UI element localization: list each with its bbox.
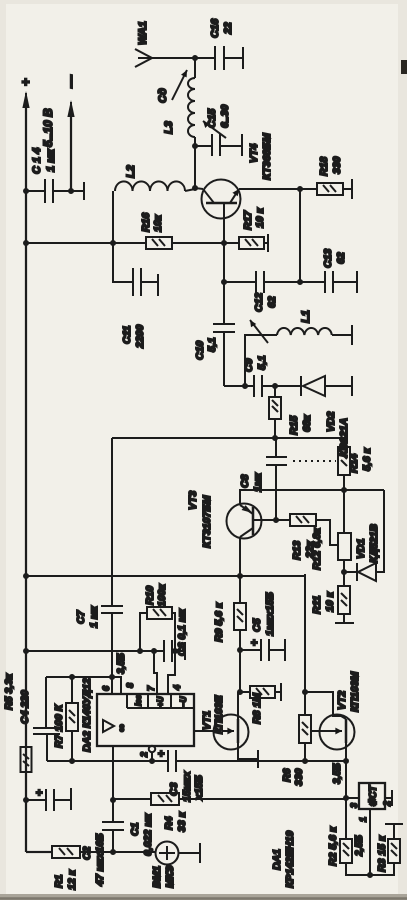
node C14 bottom: [68, 188, 74, 194]
wire: C2 branch from rail: [26, 799, 46, 801]
svg-text:VD2: VD2: [325, 411, 337, 432]
antenna WA1: [135, 49, 195, 67]
resistor R17: [224, 237, 264, 249]
svg-text:330: 330: [293, 768, 305, 786]
label C5 1мкх15В: [251, 592, 276, 636]
node R10 bottom: [172, 648, 178, 654]
label R5 3,3к: [3, 673, 15, 710]
svg-text:5..10 В: 5..10 В: [41, 108, 55, 147]
label pin 4: [172, 685, 182, 691]
wire: feedback column x223: [46, 677, 112, 761]
label R11 10к: [311, 591, 336, 614]
node C5: [237, 647, 243, 653]
svg-text:R11: R11: [311, 595, 323, 614]
svg-text:0,022 мк: 0,022 мк: [142, 813, 154, 856]
ground C15: [241, 134, 243, 156]
resistor R10: [140, 607, 175, 651]
wire: to L1: [245, 335, 277, 386]
arrow: + supply: [22, 91, 29, 108]
label R9 5,6к: [213, 602, 225, 642]
resistor R4: [113, 793, 346, 805]
label L2: [125, 165, 137, 178]
wire: +U distribution line x249: [26, 650, 185, 652]
label VT3 КТ3107БМ: [187, 491, 213, 548]
label DA2 К140УД12: [81, 678, 93, 752]
label VT2 КП103М: [336, 671, 361, 712]
wire: base line west with C10: [223, 243, 225, 324]
wire: VT3 collector to x410: [240, 490, 384, 505]
pin 7: [154, 651, 157, 694]
svg-text:R15: R15: [288, 416, 300, 435]
svg-text:62: 62: [266, 296, 278, 308]
resistor R2: [340, 798, 394, 875]
svg-text:R7 100 К: R7 100 К: [53, 703, 65, 748]
svg-text:R1: R1: [53, 874, 65, 888]
wire: minus rail: [70, 112, 72, 191]
transistor VT4: [202, 180, 241, 219]
svg-text:1 мк: 1 мк: [88, 605, 100, 628]
svg-text:Сд: Сд: [157, 88, 169, 103]
capacitor C10: [213, 324, 235, 386]
capacitor C6: [164, 640, 172, 662]
ground C13: [356, 271, 358, 293]
svg-text:DA1: DA1: [271, 849, 283, 870]
transistor VT1: [214, 692, 259, 759]
node varicap: [272, 383, 278, 389]
label 3,5В DA2: [116, 653, 127, 674]
svg-text:22: 22: [222, 22, 234, 35]
wire: source line to DA1: [345, 761, 347, 798]
label pin 6: [101, 685, 111, 691]
resistor R9: [234, 603, 246, 692]
svg-text:5,6 к: 5,6 к: [361, 447, 373, 471]
wire: VT4 base: [223, 203, 225, 243]
svg-text:1мкх15Б: 1мкх15Б: [264, 592, 276, 636]
label pin 8: [125, 683, 135, 688]
node C12 tap: [221, 279, 227, 285]
ground C2: [70, 788, 72, 810]
node C14 top: [23, 188, 29, 194]
wire: emitter link: [299, 189, 301, 282]
label R10 100к: [144, 583, 168, 607]
label R12 6,8к: [311, 527, 323, 570]
label C16 22: [209, 19, 234, 38]
svg-text:С2: С2: [81, 846, 93, 860]
label R3 15к: [376, 835, 388, 872]
label R13 22к: [291, 540, 316, 560]
pin 3 input line: [112, 746, 114, 761]
svg-text:6: 6: [101, 685, 111, 691]
label pin 1: [358, 817, 368, 822]
svg-text:КР142ЕН19: КР142ЕН19: [284, 831, 296, 888]
pin 2 DA1 ground: [385, 790, 392, 806]
label WA1: [137, 21, 149, 45]
ground C5: [284, 639, 286, 661]
diode VD1: [344, 490, 384, 581]
wire: inverting net x139: [47, 760, 346, 762]
ground R8: [280, 683, 282, 701]
node VD1 top: [341, 569, 347, 575]
label C4 220: [19, 690, 31, 724]
svg-text:6..30: 6..30: [219, 104, 231, 128]
wire: R16 to VT4 base node: [172, 242, 224, 244]
ground BM1: [199, 843, 201, 863]
wire: right feed line down: [112, 438, 344, 447]
ground R3: [385, 823, 403, 825]
capacitor C1: [102, 822, 124, 830]
label R14 5,6к: [348, 447, 373, 473]
opamp DA2 box: [97, 694, 194, 746]
ground L1: [351, 325, 353, 345]
capacitor C12: [224, 271, 300, 293]
label R15 68к: [288, 414, 313, 435]
ground VD2: [351, 376, 353, 396]
svg-text:С4 220: С4 220: [19, 690, 31, 724]
pin VT1 gate: [194, 730, 214, 732]
microphone BM1: [156, 842, 201, 865]
label pin 2 DA1: [382, 801, 392, 807]
svg-text:R3 15 к: R3 15 к: [376, 835, 388, 872]
ground C11: [157, 274, 159, 296]
node C15 tap: [192, 143, 198, 149]
wire: tank corner: [224, 385, 245, 387]
wire: R16 branch from rail: [26, 242, 146, 244]
svg-text:1 мк: 1 мк: [45, 148, 57, 172]
svg-text:12 к: 12 к: [66, 869, 78, 890]
label minus: [63, 74, 78, 89]
svg-text:КТ368БМ: КТ368БМ: [261, 133, 273, 180]
label cells Icc +U -U: [134, 694, 188, 707]
node rail R16: [23, 240, 29, 246]
resistor R3: [388, 824, 400, 863]
label L3: [163, 121, 175, 134]
pin 2 with circle: [149, 746, 155, 761]
capacitor C15 trimmer: [195, 121, 242, 156]
svg-text:R9 5,6 к: R9 5,6 к: [213, 602, 225, 642]
svg-text:+U: +U: [156, 696, 165, 707]
wire: VT4 emitter: [239, 188, 317, 190]
label 5...10 V: [41, 108, 55, 147]
svg-text:С1: С1: [129, 822, 141, 836]
svg-text:L2: L2: [125, 165, 137, 178]
svg-text:R12 6,8к: R12 6,8к: [311, 527, 323, 570]
wire: output line from DA2 pin6 area to modulator: [111, 438, 113, 677]
resistor R14: [338, 447, 350, 489]
node DA1 top: [343, 795, 349, 801]
label VD1 КД521В: [355, 523, 380, 563]
svg-text:С11: С11: [121, 325, 133, 344]
svg-text:R6: R6: [281, 768, 293, 782]
label C10 5,1: [194, 337, 218, 360]
capacitor C13: [300, 271, 357, 293]
wire: VT4 collector to tank node: [195, 188, 203, 189]
node pin6: [109, 674, 115, 680]
node R7 left: [69, 758, 75, 764]
resistor R18: [317, 183, 352, 195]
ground R11: [335, 622, 354, 624]
svg-text:2,5Б: 2,5Б: [354, 835, 365, 857]
svg-text:WA1: WA1: [137, 21, 149, 45]
capacitor C8: [266, 438, 287, 520]
label pin 3 DA1: [349, 803, 359, 808]
label R16 10к: [140, 213, 164, 232]
label 2,5В: [354, 835, 365, 857]
ground C16: [242, 47, 244, 69]
svg-text:3,5Б: 3,5Б: [116, 653, 127, 674]
svg-text:R14: R14: [348, 454, 360, 473]
varicap VD2: [275, 376, 352, 396]
svg-text:8: 8: [125, 683, 135, 688]
svg-text:VT4: VT4: [248, 144, 260, 163]
resistor R13: [276, 514, 338, 545]
svg-text:С3: С3: [168, 782, 180, 796]
svg-text:КП103М: КП103М: [349, 671, 361, 712]
resistor R8: [240, 686, 281, 698]
label C3 15мкх15Б: [168, 770, 205, 802]
svg-text:R13: R13: [291, 541, 303, 560]
svg-text:С5: С5: [251, 618, 263, 632]
node VT3 base: [273, 517, 279, 523]
svg-text:VT3: VT3: [187, 491, 199, 510]
svg-text:L1: L1: [300, 310, 312, 323]
svg-text:С15: С15: [206, 109, 218, 128]
svg-text:100к: 100к: [156, 583, 168, 607]
capacitor C4: [33, 677, 60, 761]
node VT2 feed: [302, 689, 308, 695]
node pin7: [151, 648, 157, 654]
svg-text:2200: 2200: [134, 324, 146, 349]
ground VT1 source: [257, 750, 259, 768]
label R8 1М: [251, 693, 263, 724]
label R6 330: [281, 768, 305, 786]
resistor R11: [338, 572, 350, 623]
node R15 feed: [272, 435, 278, 441]
svg-text:33 к: 33 к: [176, 811, 188, 832]
scan shadow bottom edge of page: [0, 894, 407, 900]
label Cd: [157, 88, 169, 103]
svg-text:−U: −U: [179, 696, 188, 707]
resistor R16: [146, 237, 172, 249]
node x249 rail: [23, 648, 29, 654]
svg-text:VD1: VD1: [355, 538, 367, 559]
svg-text:5,1: 5,1: [256, 355, 268, 370]
svg-text:3: 3: [349, 803, 359, 808]
wire: VT3 feed line x324: [26, 574, 305, 692]
svg-text:47 мкх16Б: 47 мкх16Б: [94, 833, 106, 887]
svg-text:DA2 К140УД12: DA2 К140УД12: [81, 678, 93, 752]
svg-text:R8 1М: R8 1М: [251, 693, 263, 724]
svg-text:330: 330: [331, 156, 343, 174]
svg-text:С 1 4: С 1 4: [31, 148, 43, 174]
wire: C11 branch: [113, 243, 133, 282]
svg-text:∞: ∞: [116, 724, 128, 732]
svg-text:10 к: 10 к: [254, 207, 266, 228]
svg-text:МКЭ: МКЭ: [164, 865, 176, 888]
transistor VT2: [305, 692, 355, 761]
transistor VT3: [227, 504, 277, 539]
node R10 top: [137, 648, 143, 654]
wire: +supply top rail: [26, 103, 52, 852]
ground R18: [351, 179, 353, 199]
wire: node to L3: [194, 137, 196, 188]
resistor R1: [52, 846, 156, 858]
svg-text:ВМ1: ВМ1: [151, 866, 163, 888]
wire: VT3 emitter to rail line: [239, 537, 241, 576]
svg-text:+: +: [18, 78, 33, 86]
dashed link C8 R14: [293, 460, 336, 462]
svg-text:VT1: VT1: [201, 711, 213, 730]
svg-text:С8: С8: [239, 474, 251, 488]
label VD2 КВ121А: [325, 411, 350, 457]
resistor R5 in rail: [21, 747, 32, 772]
svg-text:7: 7: [146, 685, 156, 691]
svg-text:R2 5,6 к: R2 5,6 к: [327, 826, 339, 866]
label C12 62: [253, 293, 278, 312]
capacitor C11: [133, 268, 158, 296]
arrow L3 tuning: [172, 70, 187, 100]
wire: R9 line: [239, 576, 241, 603]
arrow: - supply: [67, 100, 74, 117]
svg-text:R18: R18: [318, 157, 330, 176]
label C7 1мк: [75, 605, 100, 628]
label BM1 МКЭ: [151, 865, 176, 888]
arrow tank tuning: [250, 320, 268, 343]
node pin1: [367, 872, 373, 878]
label C11 2200: [121, 324, 146, 349]
svg-text:R5 3,3к: R5 3,3к: [3, 673, 15, 710]
svg-text:L3: L3: [163, 121, 175, 134]
node VT1 drain: [237, 689, 243, 695]
svg-text:С16: С16: [209, 19, 221, 38]
capacitor C7: [101, 606, 123, 613]
ground R17: [264, 234, 268, 252]
svg-text:5,1: 5,1: [206, 337, 218, 352]
node antenna: [192, 55, 198, 61]
pin 8: [112, 677, 121, 694]
ground at minus rail: [71, 182, 84, 200]
svg-text:КП103Е: КП103Е: [213, 694, 225, 734]
svg-text:С6 0,1 мк: С6 0,1 мк: [176, 608, 188, 656]
pin 6: [111, 677, 113, 694]
svg-text:3,5Б: 3,5Б: [332, 763, 343, 784]
capacitor C14: [26, 179, 71, 203]
inductor L1: [277, 328, 352, 335]
svg-text:10к: 10к: [152, 214, 164, 232]
svg-text:R4: R4: [163, 816, 175, 830]
resistor R6: [299, 692, 311, 761]
node C2 rail: [23, 797, 29, 803]
node emitter: [297, 186, 303, 192]
node VT4 collector: [192, 185, 198, 191]
svg-text:С12: С12: [253, 293, 265, 312]
svg-text:КД521В: КД521В: [368, 523, 380, 563]
label R4 33к: [163, 811, 188, 832]
inductor L2: [115, 181, 195, 191]
svg-text:С9: С9: [243, 358, 255, 372]
capacitor C2 polar: [34, 789, 71, 811]
svg-text:62: 62: [335, 252, 347, 264]
node R6 C3: [302, 758, 308, 764]
label C14 1мк: [31, 148, 57, 174]
label C6 0,1мк: [176, 608, 188, 656]
node L2 tap: [110, 240, 116, 246]
label R2 5,6к: [327, 826, 339, 866]
label DA1 КР142ЕН19: [271, 831, 296, 888]
label R18 330: [318, 156, 343, 176]
svg-text:+: +: [249, 639, 261, 646]
node R7 right: [69, 674, 75, 680]
node x324 rail: [23, 573, 29, 579]
svg-text:Iсс: Iсс: [134, 694, 143, 706]
node R4 top: [110, 797, 116, 803]
node C13 junction: [297, 279, 303, 285]
node C1 mic: [110, 849, 116, 855]
wire: pin3 net to C1: [112, 761, 114, 852]
regulator DA1 box: [346, 783, 385, 809]
svg-text:R16: R16: [140, 213, 152, 232]
svg-text:1: 1: [358, 817, 368, 822]
svg-text:КТ3107БМ: КТ3107БМ: [201, 495, 213, 548]
label VT4 КТ368БМ: [248, 133, 273, 180]
svg-text:15мкх: 15мкх: [181, 770, 193, 802]
node VT3 emitter junction: [237, 573, 243, 579]
pin 1 DA1: [369, 809, 371, 875]
capacitor C9: [245, 375, 275, 397]
ground C6: [184, 642, 186, 660]
label R7 100к: [53, 703, 65, 748]
label R1 12к: [53, 869, 78, 890]
label L1: [300, 310, 312, 323]
node tank top: [242, 383, 248, 389]
svg-text:—: —: [63, 74, 78, 89]
label C15 6..30: [206, 104, 231, 128]
svg-text:С7: С7: [75, 609, 87, 624]
label pin 2: [139, 752, 149, 758]
resistor R15: [269, 386, 281, 439]
label R17 10к: [242, 207, 266, 230]
node R14 R12: [341, 487, 347, 493]
svg-text:VT2: VT2: [336, 691, 348, 710]
label C2 47мкх16Б: [81, 833, 106, 887]
capacitor C5 polar: [240, 639, 285, 661]
pin 4: [168, 651, 175, 694]
capacitor C16: [195, 46, 243, 70]
label 3,5В: [332, 763, 343, 784]
node VT2 source C3: [343, 758, 349, 764]
opamp symbol: [103, 720, 128, 732]
label C13 62: [322, 249, 347, 268]
svg-text:✱СТ: ✱СТ: [368, 785, 379, 807]
label +: [18, 78, 33, 86]
svg-text:R17: R17: [242, 210, 254, 230]
svg-text:С13: С13: [322, 249, 334, 268]
label C1 0,022мк: [129, 813, 154, 856]
resistor R12: [338, 490, 351, 572]
label C9 5,1: [243, 355, 268, 372]
capacitor C3 polar: [156, 750, 176, 772]
svg-text:10 к: 10 к: [324, 591, 336, 612]
resistor R7: [66, 677, 78, 761]
label VT1 КП103Е: [201, 694, 225, 734]
svg-text:С10: С10: [194, 341, 206, 360]
svg-text:68к: 68к: [301, 414, 313, 432]
svg-text:+: +: [34, 789, 46, 796]
label pin 7: [146, 685, 156, 691]
svg-text:+: +: [156, 750, 168, 757]
node VT4 base: [221, 240, 227, 246]
svg-text:х15Б: х15Б: [193, 774, 205, 801]
wire: tap to L2: [112, 191, 114, 243]
